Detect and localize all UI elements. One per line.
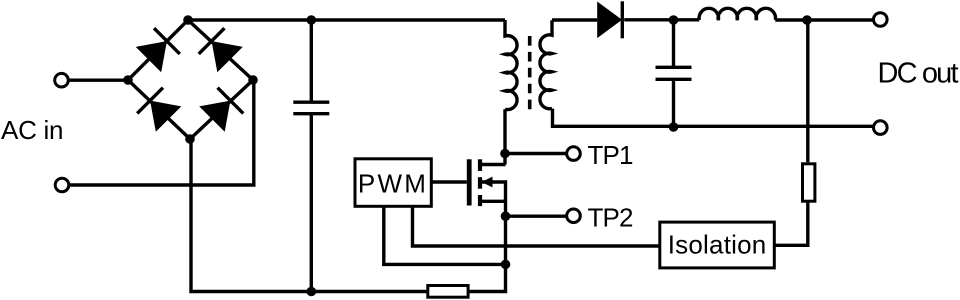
- node: source / TP2 tap: [501, 211, 511, 221]
- node: bulk capacitor tap on + rail: [307, 15, 317, 25]
- terminal: AC in bottom: [55, 178, 69, 192]
- bridge diode (lower-left AC to + rail): [136, 28, 180, 72]
- wire: isolation block to PWM feedback pin: [413, 206, 660, 246]
- wire: TP2 stub: [506, 214, 567, 217]
- node: bridge + output: [183, 15, 193, 25]
- wire: bridge diamond edges: [128, 20, 253, 139]
- transistor Q channel segments: [478, 159, 482, 171]
- node: bridge - output corner: [185, 134, 195, 144]
- wire: source node down to sense resistor: [468, 216, 505, 291]
- wire: TP1 stub: [505, 152, 567, 155]
- isolation block: [660, 222, 775, 268]
- terminal: DC out top: [874, 13, 888, 27]
- node: output / feedback tap: [802, 15, 812, 25]
- node: source / PWM ground junction: [501, 260, 511, 270]
- wire: MOSFET body and source leads: [482, 182, 506, 216]
- bridge diode (right AC to + rail): [199, 28, 243, 72]
- svg-text:AC in: AC in: [1, 115, 64, 145]
- svg-text:PWM: PWM: [358, 169, 426, 199]
- svg-text:TP1: TP1: [588, 140, 634, 170]
- node: diode cathode / filter cap tap: [669, 15, 679, 25]
- wire: inductor to DC out top terminal: [775, 18, 873, 21]
- diode (output rectifier): [597, 1, 622, 38]
- node: drain / TP1 tap: [500, 149, 510, 159]
- wire: feedback from output node down to resistor: [805, 20, 809, 162]
- wire: secondary bottom to DC out bottom terminal: [553, 109, 874, 127]
- wire: AC bottom terminal right and up to bridge right node: [69, 80, 254, 185]
- terminal: AC in top: [55, 73, 69, 87]
- transformer secondary winding: [540, 20, 552, 108]
- capacitor (output filter): top lead: [672, 20, 675, 67]
- PWM controller block: [355, 159, 431, 207]
- transformer core (dashed): [528, 36, 532, 109]
- terminal: TP2: [567, 209, 581, 223]
- bridge diode (- rail to left AC): [137, 88, 181, 132]
- node: filter cap on - output rail: [669, 122, 679, 132]
- terminal: DC out bottom: [874, 121, 888, 135]
- capacitor (bulk) plates: [293, 102, 329, 114]
- bridge diode (- rail to right AC): [199, 88, 243, 132]
- wire: output diode to filter node: [624, 18, 699, 21]
- transistor Q (power MOSFET) gate bar: [467, 159, 472, 205]
- transistor Q body diode arrow: [482, 177, 493, 188]
- svg-text:DC out: DC out: [878, 57, 959, 89]
- resistor (current sense): [428, 286, 468, 298]
- wire: PWM ground pin to source node: [384, 206, 506, 264]
- inductor (output filter): [699, 8, 775, 20]
- resistor (feedback divider): [803, 164, 815, 201]
- wire: + rail from bridge top to transformer primary: [188, 18, 505, 21]
- capacitor (output filter): bottom lead: [672, 79, 675, 126]
- node: bulk cap on - rail: [307, 287, 317, 297]
- capacitor (bulk): bottom lead: [310, 114, 313, 292]
- node: bridge left AC corner: [123, 75, 133, 85]
- wire: secondary top to output diode: [552, 18, 597, 21]
- node: bridge right AC corner: [248, 75, 258, 85]
- transformer primary winding: [505, 20, 517, 110]
- capacitor (output filter) plates: [656, 67, 692, 79]
- wire: sense resistor to bridge - rail: [191, 139, 428, 292]
- svg-text:TP2: TP2: [588, 202, 634, 232]
- wire: AC top terminal to bridge left node: [69, 78, 128, 81]
- wire: resistor to isolation block: [774, 201, 808, 245]
- terminal: TP1: [567, 147, 581, 161]
- wire: PWM gate drive output: [431, 180, 467, 183]
- svg-text:Isolation: Isolation: [668, 230, 767, 260]
- wire: transformer primary bottom to MOSFET drain: [482, 109, 506, 164]
- capacitor (bulk, after bridge): top lead: [310, 20, 313, 102]
